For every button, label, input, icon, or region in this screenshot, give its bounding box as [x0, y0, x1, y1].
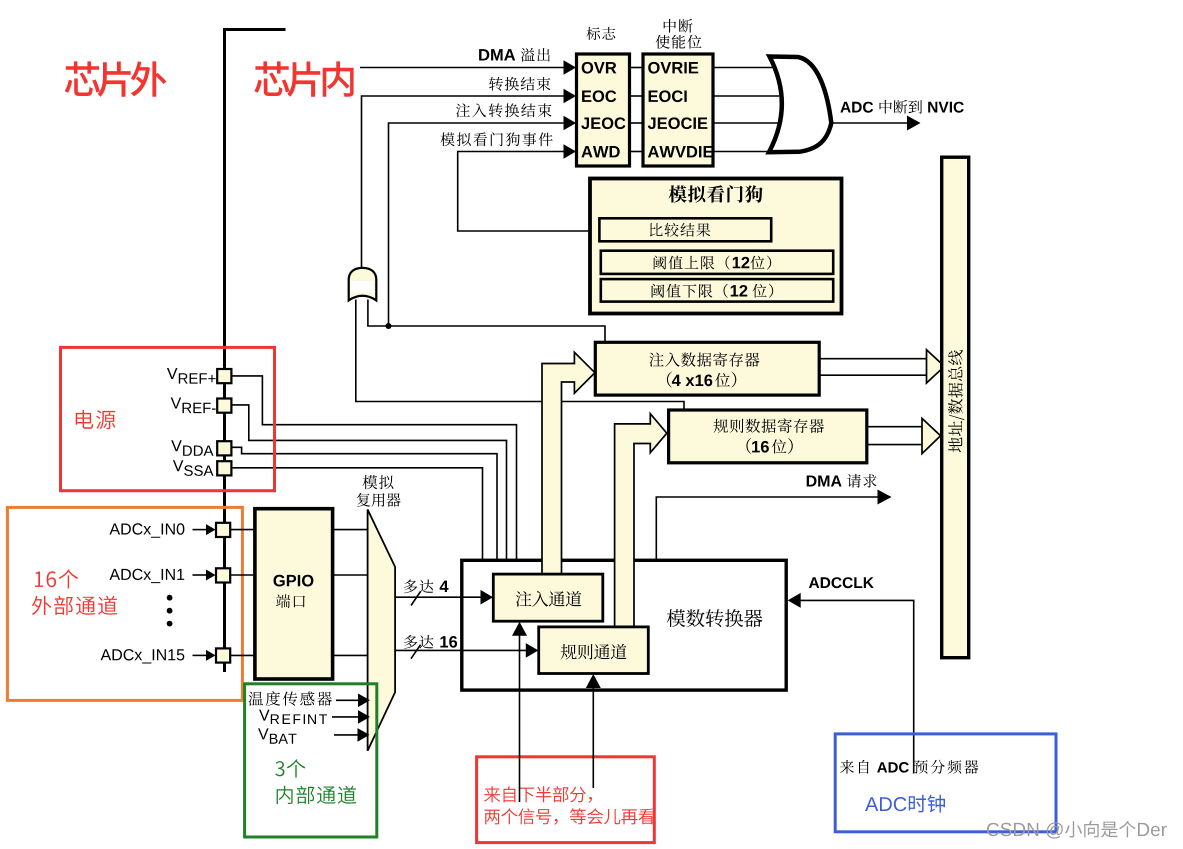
arrow VREFINT to mux — [332, 710, 370, 724]
label off-chip (red) — [65, 61, 167, 96]
label end of conversion — [489, 77, 550, 91]
box ADC clock (blue) — [835, 734, 1056, 832]
label ADCx_IN0 — [110, 523, 185, 537]
block arrow regular register to bus — [867, 418, 941, 453]
box interrupt enables OVRIE EOCI JEOCIE AWVDIE — [643, 54, 713, 166]
box analog watchdog — [590, 179, 842, 314]
pin ADCx_IN15 — [216, 648, 230, 662]
wire regular EOC source (to OR gate and regular data register) — [356, 300, 684, 412]
wires enable box to OR gate rows — [713, 68, 779, 152]
arrow ADCx_IN0 input — [193, 524, 216, 535]
wires flag box to enable box rows — [630, 68, 644, 152]
pin ADCx_IN1 — [216, 568, 230, 582]
label DMA request — [807, 474, 877, 488]
wire end of conversion (from OR gate output) — [362, 89, 577, 268]
label ADCCLK — [809, 577, 874, 588]
box regular channels — [539, 627, 649, 674]
pin VDDA — [217, 441, 231, 455]
wire VSSA to ADC — [231, 468, 482, 559]
label VREF+ — [167, 368, 216, 384]
wire ADCCLK from prescaler — [788, 593, 914, 774]
arrow VBAT to mux — [334, 728, 370, 742]
arrow temperature sensor to mux — [336, 694, 370, 708]
OR gate interrupt combiner — [769, 57, 831, 153]
block arrow injected registers to bus — [819, 350, 944, 383]
label injected conversion end — [456, 103, 552, 117]
wire chip boundary divider line — [223, 28, 286, 672]
wire VREF+ to ADC — [231, 376, 516, 559]
label 16 external channels (red) — [32, 569, 117, 615]
label up to 4 — [404, 580, 449, 594]
label ADCx_IN1 — [110, 569, 185, 583]
label temperature sensor — [249, 691, 332, 706]
box low threshold 12 bits — [601, 279, 833, 302]
box GPIO port — [255, 509, 333, 679]
OR gate EOC combiner (small) — [349, 268, 377, 301]
box high threshold 12 bits — [601, 251, 833, 274]
box status flags OVR EOC JEOC AWD — [577, 54, 630, 166]
wire regular trigger — [586, 674, 601, 788]
label ADC interrupt to NVIC — [840, 100, 963, 114]
label analog watchdog event — [441, 132, 553, 146]
box trigger note (red) — [477, 757, 655, 843]
wire injected EOC source (to OR gate and injected data register) — [368, 300, 605, 344]
wire DMA request — [656, 490, 891, 560]
watermark CSDN — [987, 821, 1167, 839]
wire injected conversion end — [389, 116, 577, 326]
box injected channels — [493, 574, 603, 621]
block arrow injected channel to injected data register — [542, 352, 595, 580]
junction JEOC tap — [386, 323, 392, 329]
slash bus width 16 — [411, 645, 421, 659]
box analog to digital converter — [462, 560, 786, 690]
label VBAT — [258, 728, 296, 743]
label DMA overflow — [479, 48, 550, 62]
label ADCx_IN15 — [101, 649, 185, 663]
pin VREF- — [217, 399, 231, 413]
box power supply (red) — [61, 347, 275, 490]
label analog multiplexer — [357, 475, 401, 507]
arrow ADCx_IN1 input — [193, 570, 216, 581]
label VREFINT — [259, 710, 327, 724]
label on-chip (red) — [254, 61, 353, 96]
box 16 external channels (orange) — [7, 507, 242, 700]
arrow ADCx_IN15 input — [193, 650, 216, 661]
wire ADC interrupt to NVIC — [831, 116, 920, 131]
wire VDDA to ADC — [231, 447, 497, 559]
label up to 16 — [404, 635, 457, 649]
box regular data register 16 — [669, 410, 867, 463]
label interrupt enable bits — [656, 19, 702, 49]
block arrow regular channel to regular data register — [615, 414, 667, 632]
label VSSA — [173, 460, 214, 476]
wire up-to-4 injected channels — [395, 590, 493, 605]
box compare result — [599, 218, 771, 241]
ellipsis dots channels — [167, 595, 173, 627]
label flags — [587, 27, 616, 40]
pin ADCx_IN0 — [216, 523, 230, 537]
wire analog watchdog event — [458, 144, 600, 231]
pin VREF+ — [217, 369, 231, 383]
bus address and data bus — [942, 157, 969, 658]
wire up-to-16 regular channels — [395, 643, 538, 658]
box 3 internal channels (green) — [245, 684, 377, 837]
multiplexer trapezoid — [368, 510, 396, 751]
pin VSSA — [217, 461, 231, 475]
slash bus width 4 — [411, 592, 421, 606]
box injected data registers 4x16 — [595, 342, 819, 395]
wire injected trigger — [512, 622, 527, 802]
wires pins to GPIO port — [231, 530, 255, 656]
label VDDA — [171, 440, 213, 456]
label VREF- — [171, 398, 216, 414]
wires GPIO port to analog mux — [333, 530, 369, 656]
wire DMA overflow event — [360, 60, 576, 75]
wire VREF- to ADC — [231, 405, 506, 559]
